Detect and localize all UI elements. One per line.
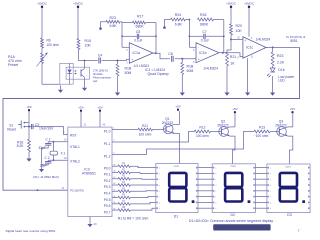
svg-text:0.1uF: 0.1uF	[134, 38, 142, 42]
svg-text:1/4LM324: 1/4LM324	[203, 66, 218, 70]
svg-text:Digital heart rate monitor usi: Digital heart rate monitor using 8051	[6, 229, 56, 233]
wire Q1 emitter to D1 com	[174, 134, 179, 164]
svg-text:P3.2(INT0): P3.2(INT0)	[70, 189, 84, 193]
wire XTAL2	[48, 159, 68, 161]
svg-text:50M: 50M	[187, 69, 194, 73]
wire	[112, 132, 254, 155]
svg-text:50M: 50M	[125, 71, 132, 75]
svg-text:0.1uF: 0.1uF	[201, 38, 209, 42]
resistor R6	[112, 194, 130, 199]
svg-text:LTH 1550-01: LTH 1550-01	[93, 69, 109, 73]
svg-text:Photo transistor: Photo transistor	[93, 76, 111, 80]
ground	[58, 85, 63, 93]
wire segment bus	[130, 184, 155, 186]
transistor Q3	[275, 120, 287, 137]
label IC1 = LM324	[145, 68, 169, 76]
resistor R18 (stage2 feedback)	[197, 13, 223, 26]
display D2 digit	[225, 173, 250, 203]
svg-text:P0.7: P0.7	[104, 210, 111, 214]
wire to terminal	[101, 22, 107, 28]
svg-text:f: f	[270, 197, 271, 199]
crystal X1	[50, 142, 66, 161]
wire segment bus	[130, 208, 155, 210]
node stage1 output	[155, 52, 157, 54]
svg-text:e: e	[270, 191, 272, 193]
wire inverting input	[122, 22, 129, 48]
junction	[37, 189, 39, 191]
node stage2 output	[222, 52, 224, 54]
svg-text:P0.1: P0.1	[104, 173, 111, 177]
svg-text:P0.5: P0.5	[104, 198, 111, 202]
resistor R8	[112, 206, 130, 211]
svg-text:R13: R13	[259, 126, 265, 130]
svg-text:IC1b: IC1b	[199, 51, 206, 55]
svg-text:R1 to R8 = 100 ohm: R1 to R8 = 100 ohm	[118, 217, 149, 221]
display D2 box	[212, 164, 255, 213]
capacitor C3	[29, 123, 68, 134]
svg-text:R20: R20	[236, 24, 242, 28]
capacitor C7 (stage2 feedback)	[189, 30, 223, 42]
svg-text:R18: R18	[200, 13, 206, 17]
svg-text:2N2222: 2N2222	[275, 123, 287, 127]
wire ground pin 11	[247, 58, 249, 89]
svg-text:6.8K: 6.8K	[110, 24, 118, 28]
wire	[112, 132, 194, 143]
svg-text:LED: LED	[278, 78, 285, 82]
svg-text:19: 19	[64, 138, 67, 141]
svg-text:+5V: +5V	[175, 105, 180, 109]
svg-text:XTAL1: XTAL1	[70, 145, 80, 149]
svg-text:R17: R17	[137, 15, 143, 19]
wire phototransistor collector	[84, 60, 86, 68]
svg-text:9: 9	[237, 56, 239, 59]
svg-text:C5: C5	[136, 30, 140, 34]
ground	[224, 90, 229, 96]
svg-text:R12: R12	[199, 126, 205, 130]
label crystal frequency	[33, 175, 59, 179]
svg-text:3: 3	[126, 61, 128, 64]
ground	[39, 148, 44, 172]
svg-text:+5VDC: +5VDC	[37, 2, 48, 6]
wire segment bus	[130, 178, 155, 180]
svg-text:2N2222: 2N2222	[217, 123, 229, 127]
resistor R15	[77, 39, 91, 50]
ground	[82, 79, 87, 91]
svg-text:12: 12	[62, 187, 65, 190]
ground pin 20	[87, 217, 97, 228]
display D1 box	[156, 164, 198, 213]
preset R1A	[8, 53, 48, 68]
wire Q2 emitter to D2 com	[230, 136, 235, 164]
wire segment bus	[130, 171, 155, 174]
svg-text:-: -	[198, 46, 200, 50]
wire	[102, 60, 118, 62]
svg-text:com: com	[174, 164, 180, 168]
svg-text:6.8K: 6.8K	[175, 22, 183, 26]
svg-text:20: 20	[94, 222, 98, 226]
svg-text:1K: 1K	[230, 61, 235, 65]
svg-text:P0.4: P0.4	[104, 191, 111, 195]
svg-text:C 1: C 1	[46, 137, 51, 141]
svg-text:1/4LM324: 1/4LM324	[256, 38, 271, 42]
phototransistor inside opto pair	[81, 67, 85, 79]
svg-text:e: e	[215, 191, 217, 193]
svg-text:D2: D2	[230, 213, 235, 217]
svg-text:b: b	[159, 173, 161, 175]
wire segment bus	[130, 166, 155, 167]
svg-text:b: b	[215, 173, 217, 175]
wire bus D1-D2	[198, 168, 212, 209]
resistor R21	[226, 39, 237, 89]
node A	[117, 60, 119, 62]
node comparator output	[272, 46, 274, 48]
svg-text:c: c	[159, 179, 160, 181]
svg-text:+: +	[198, 57, 200, 61]
resistor R5	[112, 187, 130, 192]
title text	[6, 229, 56, 233]
ground	[26, 156, 31, 162]
title bar	[213, 224, 270, 230]
svg-text:X 1: X 1	[61, 151, 66, 155]
svg-text:pair: pair	[93, 79, 97, 83]
power +5V pin31	[78, 106, 87, 128]
svg-text:7: 7	[298, 229, 300, 233]
ground	[180, 90, 185, 96]
resistor R13	[254, 126, 277, 139]
svg-text:+5VDC: +5VDC	[244, 2, 255, 6]
svg-text:10K: 10K	[236, 29, 243, 33]
wire comparator output	[266, 46, 300, 48]
label D3	[287, 213, 292, 217]
svg-text:IC1a: IC1a	[133, 51, 140, 55]
svg-text:2N2222: 2N2222	[162, 121, 174, 125]
opto package box (phototransistor side)	[66, 67, 89, 79]
pin 19	[64, 138, 67, 141]
resistor R24 (stage2 input)	[171, 13, 190, 26]
svg-text:g: g	[215, 202, 216, 204]
node	[28, 126, 30, 128]
svg-text:+5VDC: +5VDC	[73, 2, 84, 6]
svg-text:100 ohm: 100 ohm	[47, 43, 60, 47]
svg-text:C 2: C 2	[45, 156, 50, 160]
svg-text:b: b	[270, 173, 272, 175]
svg-text:IR diode: IR diode	[93, 72, 103, 76]
wire segment bus	[130, 202, 155, 203]
power +5VDC rail 3	[226, 2, 237, 24]
svg-text:11: 11	[251, 56, 254, 59]
label D1	[174, 215, 179, 219]
wire segment bus	[130, 190, 155, 192]
svg-text:c: c	[215, 179, 216, 181]
wire	[41, 48, 43, 53]
terminal dot	[163, 26, 166, 29]
svg-text:+5V: +5V	[232, 107, 237, 111]
MCU port labels P0	[104, 164, 117, 214]
svg-text:31: 31	[84, 124, 87, 127]
ground	[115, 90, 120, 96]
display D3 digit	[280, 173, 305, 203]
wire to terminal	[165, 20, 171, 27]
wire	[112, 129, 138, 131]
svg-text:+: +	[244, 39, 246, 43]
svg-text:c: c	[270, 179, 271, 181]
wire stage1 output	[153, 53, 170, 59]
wire	[42, 64, 60, 85]
label R1 to R8	[118, 217, 149, 221]
svg-text:P1.1: P1.1	[104, 142, 111, 146]
resistor R17 (stage1 feedback)	[122, 15, 156, 29]
svg-text:Preset: Preset	[8, 63, 18, 67]
terminal dot	[99, 27, 102, 30]
svg-text:100 ohm: 100 ohm	[256, 134, 269, 138]
svg-text:680K: 680K	[136, 24, 145, 28]
power +5V Q2	[230, 107, 238, 127]
MCU right port labels P1	[104, 128, 115, 159]
resistor R1	[112, 162, 130, 167]
svg-text:R15: R15	[85, 39, 91, 43]
svg-text:XTAL2: XTAL2	[70, 160, 80, 164]
svg-text:D1b: D1b	[278, 68, 284, 72]
op-amp U1 IC1a	[126, 43, 153, 68]
svg-text:R21: R21	[230, 55, 236, 59]
svg-text:R11: R11	[142, 124, 148, 128]
op-amp U2 IC1b	[193, 43, 219, 71]
capacitor C2	[40, 156, 52, 167]
wire XTAL1	[48, 141, 68, 143]
power +5VDC rail 2	[73, 2, 84, 39]
svg-text:680K: 680K	[200, 22, 209, 26]
resistor R23 (LED)	[271, 47, 285, 66]
svg-text:8051: 8051	[290, 39, 298, 43]
ground	[245, 90, 250, 96]
svg-text:d: d	[159, 185, 160, 187]
caption displays	[189, 219, 273, 223]
op-amp U3 IC1c	[237, 37, 270, 60]
wire	[79, 50, 98, 61]
wire Q3 emitter to D3 com	[288, 136, 293, 164]
pin 18	[64, 157, 67, 160]
svg-text:+5V: +5V	[97, 106, 102, 110]
svg-text:100 ohm: 100 ohm	[139, 133, 152, 137]
svg-text:Quad Opamp: Quad Opamp	[148, 72, 169, 76]
svg-text:RST: RST	[70, 134, 77, 138]
power +5VDC rail 4	[244, 2, 255, 37]
svg-text:2.2K: 2.2K	[277, 61, 285, 65]
svg-text:+5V: +5V	[26, 105, 31, 109]
svg-text:6: 6	[193, 49, 195, 52]
svg-text:10K: 10K	[85, 44, 92, 48]
wire to + input	[231, 38, 243, 40]
wire feedback right	[155, 23, 157, 54]
ground	[270, 90, 275, 96]
svg-text:100 ohm: 100 ohm	[196, 134, 209, 138]
svg-text:40: 40	[103, 124, 106, 127]
svg-text:d: d	[215, 185, 216, 187]
wire stage2 output	[219, 53, 243, 57]
label To P0 of 8051	[286, 35, 305, 43]
svg-text:D1=D2=D3= Common anode seven s: D1=D2=D3= Common anode seven segment dis…	[189, 219, 273, 223]
svg-text:g: g	[159, 202, 160, 204]
resistor R7	[112, 200, 130, 205]
capacitor C5 (stage1 feedback)	[122, 30, 156, 42]
svg-text:Reset: Reset	[7, 127, 16, 131]
svg-text:+5V: +5V	[290, 107, 295, 111]
svg-text:+5VDC: +5VDC	[226, 2, 237, 6]
wire inverting input	[189, 19, 197, 48]
wire	[175, 58, 196, 60]
resistor R1B (stage2 bias)	[181, 59, 194, 90]
capacitor C6	[168, 52, 173, 62]
label D2	[230, 213, 235, 217]
transistor Q2	[217, 120, 230, 137]
power +5V Q3	[288, 107, 296, 127]
svg-text:com: com	[231, 164, 237, 168]
wire signal route to MCU	[3, 47, 300, 190]
node	[121, 35, 123, 37]
svg-text:C7: C7	[202, 30, 206, 34]
svg-text:2: 2	[126, 49, 128, 52]
svg-text:9: 9	[63, 131, 65, 134]
pin 12	[62, 187, 65, 190]
resistor R11	[138, 124, 163, 137]
svg-text:R24: R24	[175, 13, 181, 17]
svg-text:D1: D1	[174, 215, 179, 219]
resistor R20	[230, 24, 243, 40]
node B	[181, 58, 183, 60]
svg-text:C6: C6	[168, 52, 173, 56]
opto package box (LED side)	[60, 63, 73, 84]
svg-text:33pF: 33pF	[40, 164, 47, 168]
svg-text:IC1c: IC1c	[246, 46, 253, 50]
resistor R2	[112, 168, 130, 173]
capacitor C4	[98, 54, 103, 64]
svg-text:h: h	[215, 208, 216, 210]
power +5V pin40	[97, 106, 106, 128]
svg-text:10uF/16V: 10uF/16V	[39, 127, 54, 131]
svg-text:+5V: +5V	[78, 106, 83, 110]
svg-text:R23: R23	[277, 54, 283, 58]
wire bus D2-D3	[255, 168, 267, 209]
svg-text:P1.0: P1.0	[104, 130, 111, 134]
node	[230, 38, 232, 40]
svg-text:R23: R23	[110, 16, 116, 20]
svg-text:a: a	[270, 168, 272, 170]
svg-text:D3: D3	[287, 213, 292, 217]
svg-text:P0.0: P0.0	[104, 166, 111, 170]
svg-text:4: 4	[251, 37, 253, 40]
svg-text:e: e	[159, 191, 161, 193]
label LTH 1550-01	[93, 69, 111, 84]
microcontroller IC3 AT89S51	[68, 127, 112, 216]
power +5VDC rail 1	[37, 2, 48, 39]
svg-text:g: g	[270, 202, 271, 204]
svg-text:AT89S51: AT89S51	[82, 172, 96, 176]
resistor R23 (stage1 input)	[106, 16, 122, 28]
svg-text:f: f	[215, 197, 216, 199]
resistor R6	[41, 38, 60, 48]
svg-text:h: h	[159, 208, 160, 210]
resistor R3	[112, 175, 130, 180]
wire feedback right	[223, 20, 225, 53]
svg-text:f: f	[159, 197, 160, 199]
display D1 digit	[169, 173, 194, 203]
transistor Q1	[162, 117, 175, 134]
svg-text:(X1= 11.0592 MHz): (X1= 11.0592 MHz)	[33, 175, 59, 179]
wire	[118, 59, 130, 60]
resistor R16	[17, 127, 31, 156]
svg-text:C4: C4	[98, 54, 103, 58]
switch S1 Reset	[7, 121, 29, 132]
capacitor C1	[39, 137, 52, 150]
svg-text:5: 5	[193, 61, 195, 64]
svg-text:h: h	[270, 208, 271, 210]
page number	[298, 229, 300, 233]
wire	[272, 76, 274, 90]
svg-text:com: com	[285, 164, 291, 168]
svg-text:P0.6: P0.6	[104, 204, 111, 208]
IR LED inside opto pair	[67, 63, 77, 84]
svg-text:33pF: 33pF	[39, 146, 46, 150]
resistor R1B (stage1 bias)	[116, 61, 132, 90]
wire segment bus	[130, 196, 155, 199]
display D3 box	[267, 164, 310, 213]
pin 9	[63, 131, 65, 134]
svg-text:P1.2: P1.2	[104, 155, 111, 159]
power +5V Q1	[174, 105, 180, 125]
power +5V reset	[26, 105, 31, 127]
svg-text:-: -	[131, 46, 133, 50]
svg-text:a: a	[159, 168, 161, 170]
svg-text:d: d	[270, 185, 271, 187]
svg-text:18: 18	[64, 157, 67, 160]
svg-text:P0.3: P0.3	[104, 185, 111, 189]
LED D1b	[267, 66, 295, 82]
resistor R4	[112, 181, 130, 186]
svg-text:8.2K: 8.2K	[17, 144, 25, 148]
svg-text:P0.2: P0.2	[104, 179, 111, 183]
svg-text:a: a	[215, 168, 217, 170]
resistor R12	[194, 126, 219, 139]
svg-text:+: +	[131, 58, 133, 62]
